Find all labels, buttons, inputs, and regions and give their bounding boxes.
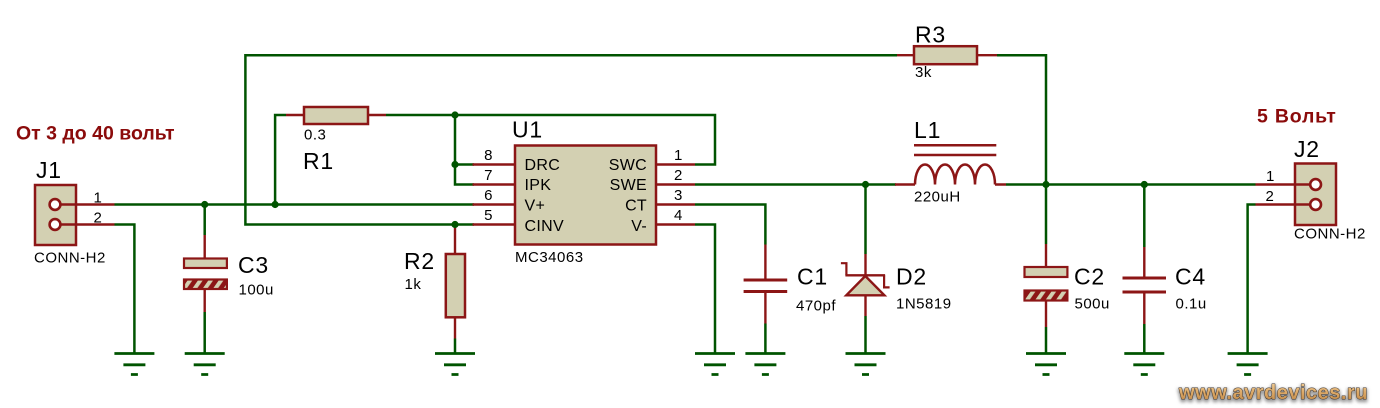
ground (U1 V-)	[695, 354, 735, 375]
wire feedback: top rail from R3 left, down at x=245, right to CINV node	[245, 55, 897, 224]
wire D2 tap	[864, 185, 867, 255]
svg-text:8: 8	[484, 147, 492, 164]
node D2 junction	[862, 181, 869, 188]
wire C4 tap	[1143, 185, 1146, 248]
svg-text:MC34063: MC34063	[515, 249, 584, 266]
node R1 right junction	[451, 111, 458, 118]
capacitor C2	[1025, 244, 1110, 327]
ground (J2 pin2)	[1228, 354, 1268, 375]
svg-text:U1: U1	[512, 117, 543, 143]
ground (J1 pin2)	[114, 354, 154, 375]
wire C4 bottom	[1143, 324, 1146, 353]
watermark www.avrdevices.ru	[1178, 382, 1368, 406]
node CINV/R2 junction	[451, 221, 458, 228]
svg-text:D2: D2	[896, 264, 927, 290]
ground (C2)	[1026, 354, 1066, 375]
svg-text:IPK: IPK	[525, 177, 552, 194]
op-amp U1 MC34063	[473, 117, 696, 267]
node input/C3 junction	[201, 201, 208, 208]
svg-text:R1: R1	[303, 148, 334, 174]
wire C3 tap	[203, 205, 206, 236]
svg-text:От 3 до 40 вольт: От 3 до 40 вольт	[16, 123, 175, 145]
svg-text:C1: C1	[797, 264, 828, 290]
wire C1 bottom	[764, 324, 767, 353]
wire L1 to output rail and J2 pin1	[1006, 183, 1256, 186]
wire R1 left riser	[275, 115, 286, 205]
node input/R1 junction	[272, 201, 279, 208]
wire J1 pin2 to ground	[115, 225, 135, 353]
svg-text:1: 1	[94, 190, 102, 207]
svg-text:3: 3	[674, 187, 682, 204]
wire R1 right to SWC	[386, 115, 715, 165]
resistor R1	[286, 107, 386, 174]
svg-text:SWC: SWC	[609, 157, 647, 174]
svg-text:L1: L1	[914, 117, 941, 143]
svg-text:0.3: 0.3	[304, 127, 326, 144]
wire CT to C1	[695, 205, 765, 245]
connector J2	[1256, 136, 1366, 243]
svg-text:0.1u: 0.1u	[1176, 296, 1207, 313]
svg-text:J2: J2	[1294, 136, 1320, 162]
svg-text:J1: J1	[36, 157, 62, 183]
svg-text:3k: 3k	[915, 64, 932, 81]
svg-text:CT: CT	[625, 198, 647, 215]
wire SWE to L1	[695, 183, 896, 186]
svg-text:www.avrdevices.ru: www.avrdevices.ru	[1178, 382, 1368, 404]
svg-text:1: 1	[674, 147, 682, 164]
ground (D2)	[846, 354, 886, 375]
svg-text:6: 6	[484, 187, 492, 204]
svg-text:500u: 500u	[1075, 296, 1110, 313]
ground (C3)	[185, 354, 225, 375]
svg-text:CINV: CINV	[525, 218, 564, 235]
node C4 junction	[1141, 181, 1148, 188]
svg-text:V-: V-	[631, 218, 647, 235]
wire main input rail J1 pin1 to V+	[115, 203, 475, 206]
svg-text:2: 2	[674, 167, 682, 184]
diode D2 1N5819	[841, 254, 952, 316]
wire V- to ground	[695, 225, 715, 353]
svg-text:4: 4	[674, 207, 682, 224]
wire node to DRC and IPK	[455, 115, 474, 185]
connector J1	[34, 157, 115, 267]
resistor R2	[404, 226, 465, 339]
svg-text:220uH: 220uH	[914, 189, 961, 206]
svg-text:CONN-H2: CONN-H2	[34, 250, 106, 267]
wire D2 bottom	[864, 316, 867, 353]
svg-text:2: 2	[1266, 188, 1274, 205]
capacitor C4	[1123, 247, 1207, 324]
svg-text:5: 5	[484, 207, 492, 224]
svg-text:2: 2	[94, 210, 102, 227]
ground (C4)	[1124, 354, 1164, 375]
svg-text:C3: C3	[238, 252, 269, 278]
svg-text:C2: C2	[1074, 264, 1105, 290]
capacitor C3	[184, 235, 274, 312]
node DRC junction	[451, 161, 458, 168]
wire J2 pin2 to ground	[1248, 205, 1256, 353]
inductor L1	[895, 117, 1006, 206]
svg-text:1: 1	[1266, 168, 1274, 185]
ground (C1)	[745, 354, 785, 375]
svg-text:V+: V+	[525, 198, 546, 215]
wire R3 right to output node	[997, 55, 1046, 184]
svg-text:R2: R2	[404, 248, 435, 274]
svg-text:1N5819: 1N5819	[896, 296, 952, 313]
wire R2 bottom	[454, 339, 457, 353]
svg-text:470pf: 470pf	[796, 298, 836, 315]
ground (R2)	[435, 354, 475, 375]
svg-text:DRC: DRC	[525, 157, 561, 174]
wire C2 tap	[1045, 185, 1048, 245]
svg-text:1k: 1k	[405, 276, 422, 293]
wire C2 bottom	[1045, 327, 1048, 353]
svg-text:CONN-H2: CONN-H2	[1294, 226, 1366, 243]
wire C3 bottom	[203, 312, 206, 353]
svg-text:SWE: SWE	[610, 177, 647, 194]
svg-text:5 Вольт: 5 Вольт	[1257, 106, 1337, 128]
svg-text:R3: R3	[915, 22, 946, 48]
svg-text:7: 7	[484, 167, 492, 184]
svg-text:100u: 100u	[239, 282, 274, 299]
resistor R3	[897, 22, 997, 82]
capacitor C1	[744, 245, 837, 324]
node C2 junction	[1042, 181, 1049, 188]
svg-text:C4: C4	[1175, 264, 1206, 290]
